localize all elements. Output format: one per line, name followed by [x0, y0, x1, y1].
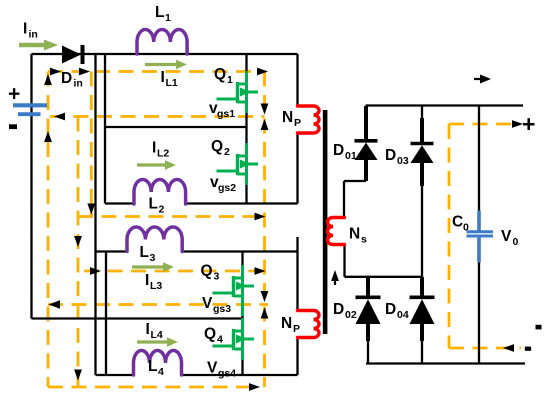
svg-text:Q: Q	[214, 66, 226, 83]
svg-text:gs2: gs2	[218, 182, 236, 194]
svg-text:1: 1	[227, 74, 233, 86]
svg-text:D: D	[385, 301, 396, 318]
svg-text:V: V	[207, 360, 218, 377]
svg-text:04: 04	[397, 309, 409, 321]
svg-text:N: N	[281, 315, 292, 332]
svg-text:2: 2	[224, 146, 230, 158]
svg-text:0: 0	[513, 236, 519, 248]
svg-text:L3: L3	[150, 280, 162, 292]
svg-text:01: 01	[345, 150, 357, 162]
svg-text:gs3: gs3	[213, 303, 231, 315]
svg-text:L: L	[140, 244, 149, 261]
svg-text:P: P	[294, 117, 301, 129]
svg-text:P: P	[293, 323, 300, 335]
svg-text:D: D	[61, 70, 72, 87]
svg-text:V: V	[501, 228, 512, 245]
svg-text:D: D	[333, 301, 344, 318]
svg-text:I: I	[145, 272, 149, 289]
svg-text:3: 3	[150, 252, 156, 264]
svg-text:L: L	[149, 196, 158, 213]
svg-text:4: 4	[158, 366, 164, 378]
svg-text:s: s	[361, 234, 367, 246]
svg-text:4: 4	[217, 334, 223, 346]
svg-text:0: 0	[463, 222, 469, 234]
svg-text:+: +	[8, 83, 20, 106]
svg-text:D: D	[385, 147, 396, 164]
svg-text:L: L	[148, 358, 157, 375]
svg-text:I: I	[23, 21, 27, 38]
svg-text:I: I	[146, 321, 150, 338]
svg-text:I: I	[161, 69, 165, 86]
svg-text:Q: Q	[211, 138, 223, 155]
svg-text:N: N	[282, 109, 293, 126]
svg-text:Q: Q	[201, 263, 213, 280]
svg-text:1: 1	[165, 12, 171, 24]
svg-text:02: 02	[345, 309, 357, 321]
svg-text:N: N	[349, 226, 360, 243]
svg-text:L: L	[155, 4, 164, 21]
svg-text:2: 2	[159, 204, 165, 216]
svg-text:C: C	[452, 214, 463, 231]
svg-text:L2: L2	[157, 148, 169, 160]
svg-text:in: in	[29, 29, 38, 41]
svg-text:D: D	[333, 142, 344, 159]
svg-text:in: in	[74, 78, 83, 90]
svg-text:gs4: gs4	[218, 368, 236, 380]
svg-text:+: +	[522, 111, 535, 137]
svg-text:L4: L4	[151, 329, 163, 341]
svg-text:V: V	[202, 295, 213, 312]
svg-text:03: 03	[397, 155, 409, 167]
svg-text:L1: L1	[166, 77, 178, 89]
svg-text:gs1: gs1	[217, 108, 235, 120]
svg-text:I: I	[152, 140, 156, 157]
svg-text:Q: Q	[204, 326, 216, 343]
svg-text:3: 3	[214, 271, 220, 283]
